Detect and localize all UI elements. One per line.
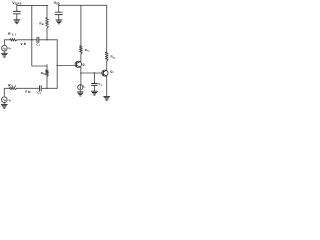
junction (RB1 joins input 1) bbox=[46, 39, 47, 40]
resistor Rs2 bbox=[10, 87, 17, 90]
wire input 2 (C2 to base column) bbox=[41, 87, 57, 89]
transistor Q1 bbox=[75, 61, 81, 67]
wire base lead to Q1 bbox=[57, 65, 76, 67]
label Q2 bbox=[110, 70, 114, 75]
wire Q2 emitter down bbox=[106, 76, 108, 96]
wire Cbias to ground bbox=[16, 14, 18, 20]
label Rs2 bbox=[8, 84, 16, 88]
svg-text:1: 1 bbox=[39, 45, 41, 47]
resistor Rs1 bbox=[10, 39, 17, 42]
node Vdd label bbox=[54, 1, 60, 6]
transistor Q2 bbox=[102, 70, 108, 76]
junction (base tap) bbox=[57, 65, 58, 66]
label v2 bbox=[9, 98, 13, 103]
wire RB1 bottom lead bbox=[46, 28, 48, 40]
ground (under Cdd) bbox=[56, 20, 62, 24]
wire RB2 bottom lead bbox=[46, 77, 48, 89]
node Vbias label bbox=[12, 1, 21, 6]
svg-text:2: 2 bbox=[15, 86, 17, 88]
wire Cdd to ground bbox=[58, 15, 60, 20]
label RB2 bbox=[41, 71, 47, 76]
capacitor C2 (coupling) bbox=[40, 86, 42, 91]
svg-text:B1: B1 bbox=[42, 24, 45, 26]
label C1 bbox=[36, 42, 40, 47]
wire RB2 top lead bbox=[46, 65, 48, 70]
label vi1 (node marker) bbox=[21, 42, 27, 46]
wire Vdd lead bbox=[58, 5, 60, 13]
wire bias branch left vertical bbox=[32, 5, 47, 66]
label vi2 (node marker) bbox=[25, 90, 31, 94]
junction (C3 tap on emitter wire) bbox=[94, 72, 95, 73]
wire C3 to ground bbox=[93, 85, 95, 91]
label RB1 bbox=[39, 21, 45, 26]
wire Vbias lead bbox=[16, 5, 18, 12]
svg-text:2: 2 bbox=[112, 72, 114, 74]
wire RC1 to Q1 collector bbox=[80, 54, 82, 61]
capacitor Cdd (bypass at Vdd) bbox=[55, 12, 62, 14]
capacitor Cbias (bypass at Vbias) bbox=[13, 11, 20, 13]
label v1 bbox=[8, 46, 12, 51]
svg-text:C2: C2 bbox=[113, 57, 116, 59]
wire V1 up to input line bbox=[4, 40, 10, 46]
junction (RB2 joins input 2) bbox=[46, 88, 47, 89]
wire V2 to ground bbox=[3, 103, 5, 105]
label I1 bbox=[83, 85, 86, 90]
wire V1 to ground bbox=[3, 51, 5, 53]
svg-text:1: 1 bbox=[15, 34, 17, 36]
svg-text:b: b bbox=[28, 90, 31, 94]
svg-text:3: 3 bbox=[101, 85, 103, 87]
ground (under V1) bbox=[1, 53, 7, 57]
wire RB1 top lead bbox=[46, 5, 48, 17]
wire RC2 top lead bbox=[106, 5, 108, 52]
wire V2 up to input line 2 bbox=[4, 88, 9, 97]
source V1 bbox=[2, 45, 8, 51]
svg-text:1: 1 bbox=[84, 65, 86, 67]
wire Q1 emitter down bbox=[80, 67, 82, 84]
ground (under V2) bbox=[1, 104, 7, 108]
wire RC2 to Q2 collector bbox=[106, 61, 108, 70]
resistor RC1 bbox=[80, 46, 83, 55]
capacitor C3 (bypass) bbox=[92, 84, 98, 86]
wire emitter node to Q2 base bbox=[81, 72, 103, 74]
wire base column vertical bbox=[56, 40, 58, 89]
wire input 1 (Rs1 to C1) bbox=[17, 39, 37, 41]
label RC1 bbox=[85, 48, 91, 53]
svg-text:v: v bbox=[25, 90, 27, 94]
wire input 2 (Rs2 to C2) bbox=[17, 87, 40, 89]
junction (bias left vertical crosses input 1) bbox=[31, 39, 32, 40]
svg-text:b: b bbox=[24, 42, 27, 46]
wire input 1 (C1 to base column) bbox=[39, 39, 57, 41]
wire RC1 top lead bbox=[80, 5, 82, 45]
label RC2 bbox=[111, 55, 117, 60]
junction (emitter node to Q2 base) bbox=[80, 72, 81, 73]
ground (under C3) bbox=[91, 91, 97, 95]
label Rs1 bbox=[8, 32, 17, 36]
ground (under Cbias) bbox=[14, 20, 20, 24]
capacitor C1 (coupling) bbox=[37, 37, 39, 42]
svg-text:2: 2 bbox=[10, 101, 12, 103]
wire emitter node to C3 bbox=[93, 73, 95, 84]
label Q1 bbox=[82, 62, 86, 67]
svg-text:1: 1 bbox=[84, 87, 86, 89]
resistor RB2 bbox=[46, 70, 49, 77]
svg-text:C1: C1 bbox=[87, 51, 90, 53]
resistor RB1 bbox=[46, 18, 49, 28]
resistor RC2 bbox=[105, 52, 108, 61]
ground (under Q2 emitter) bbox=[104, 96, 110, 100]
svg-text:1: 1 bbox=[10, 49, 12, 51]
svg-text:S: S bbox=[12, 34, 14, 36]
svg-text:S: S bbox=[12, 86, 14, 88]
svg-text:v: v bbox=[21, 42, 23, 46]
source V2 bbox=[2, 97, 8, 103]
ground (under I1) bbox=[77, 92, 83, 96]
wire Vbias rail bbox=[17, 4, 48, 6]
label C2 bbox=[37, 90, 41, 95]
wire Vdd rail bbox=[59, 4, 107, 6]
label C3 bbox=[98, 82, 102, 87]
wire I1 to ground bbox=[79, 90, 81, 92]
svg-text:2: 2 bbox=[40, 93, 42, 95]
current source I1 bbox=[78, 85, 83, 90]
svg-text:BIAS: BIAS bbox=[15, 2, 22, 5]
